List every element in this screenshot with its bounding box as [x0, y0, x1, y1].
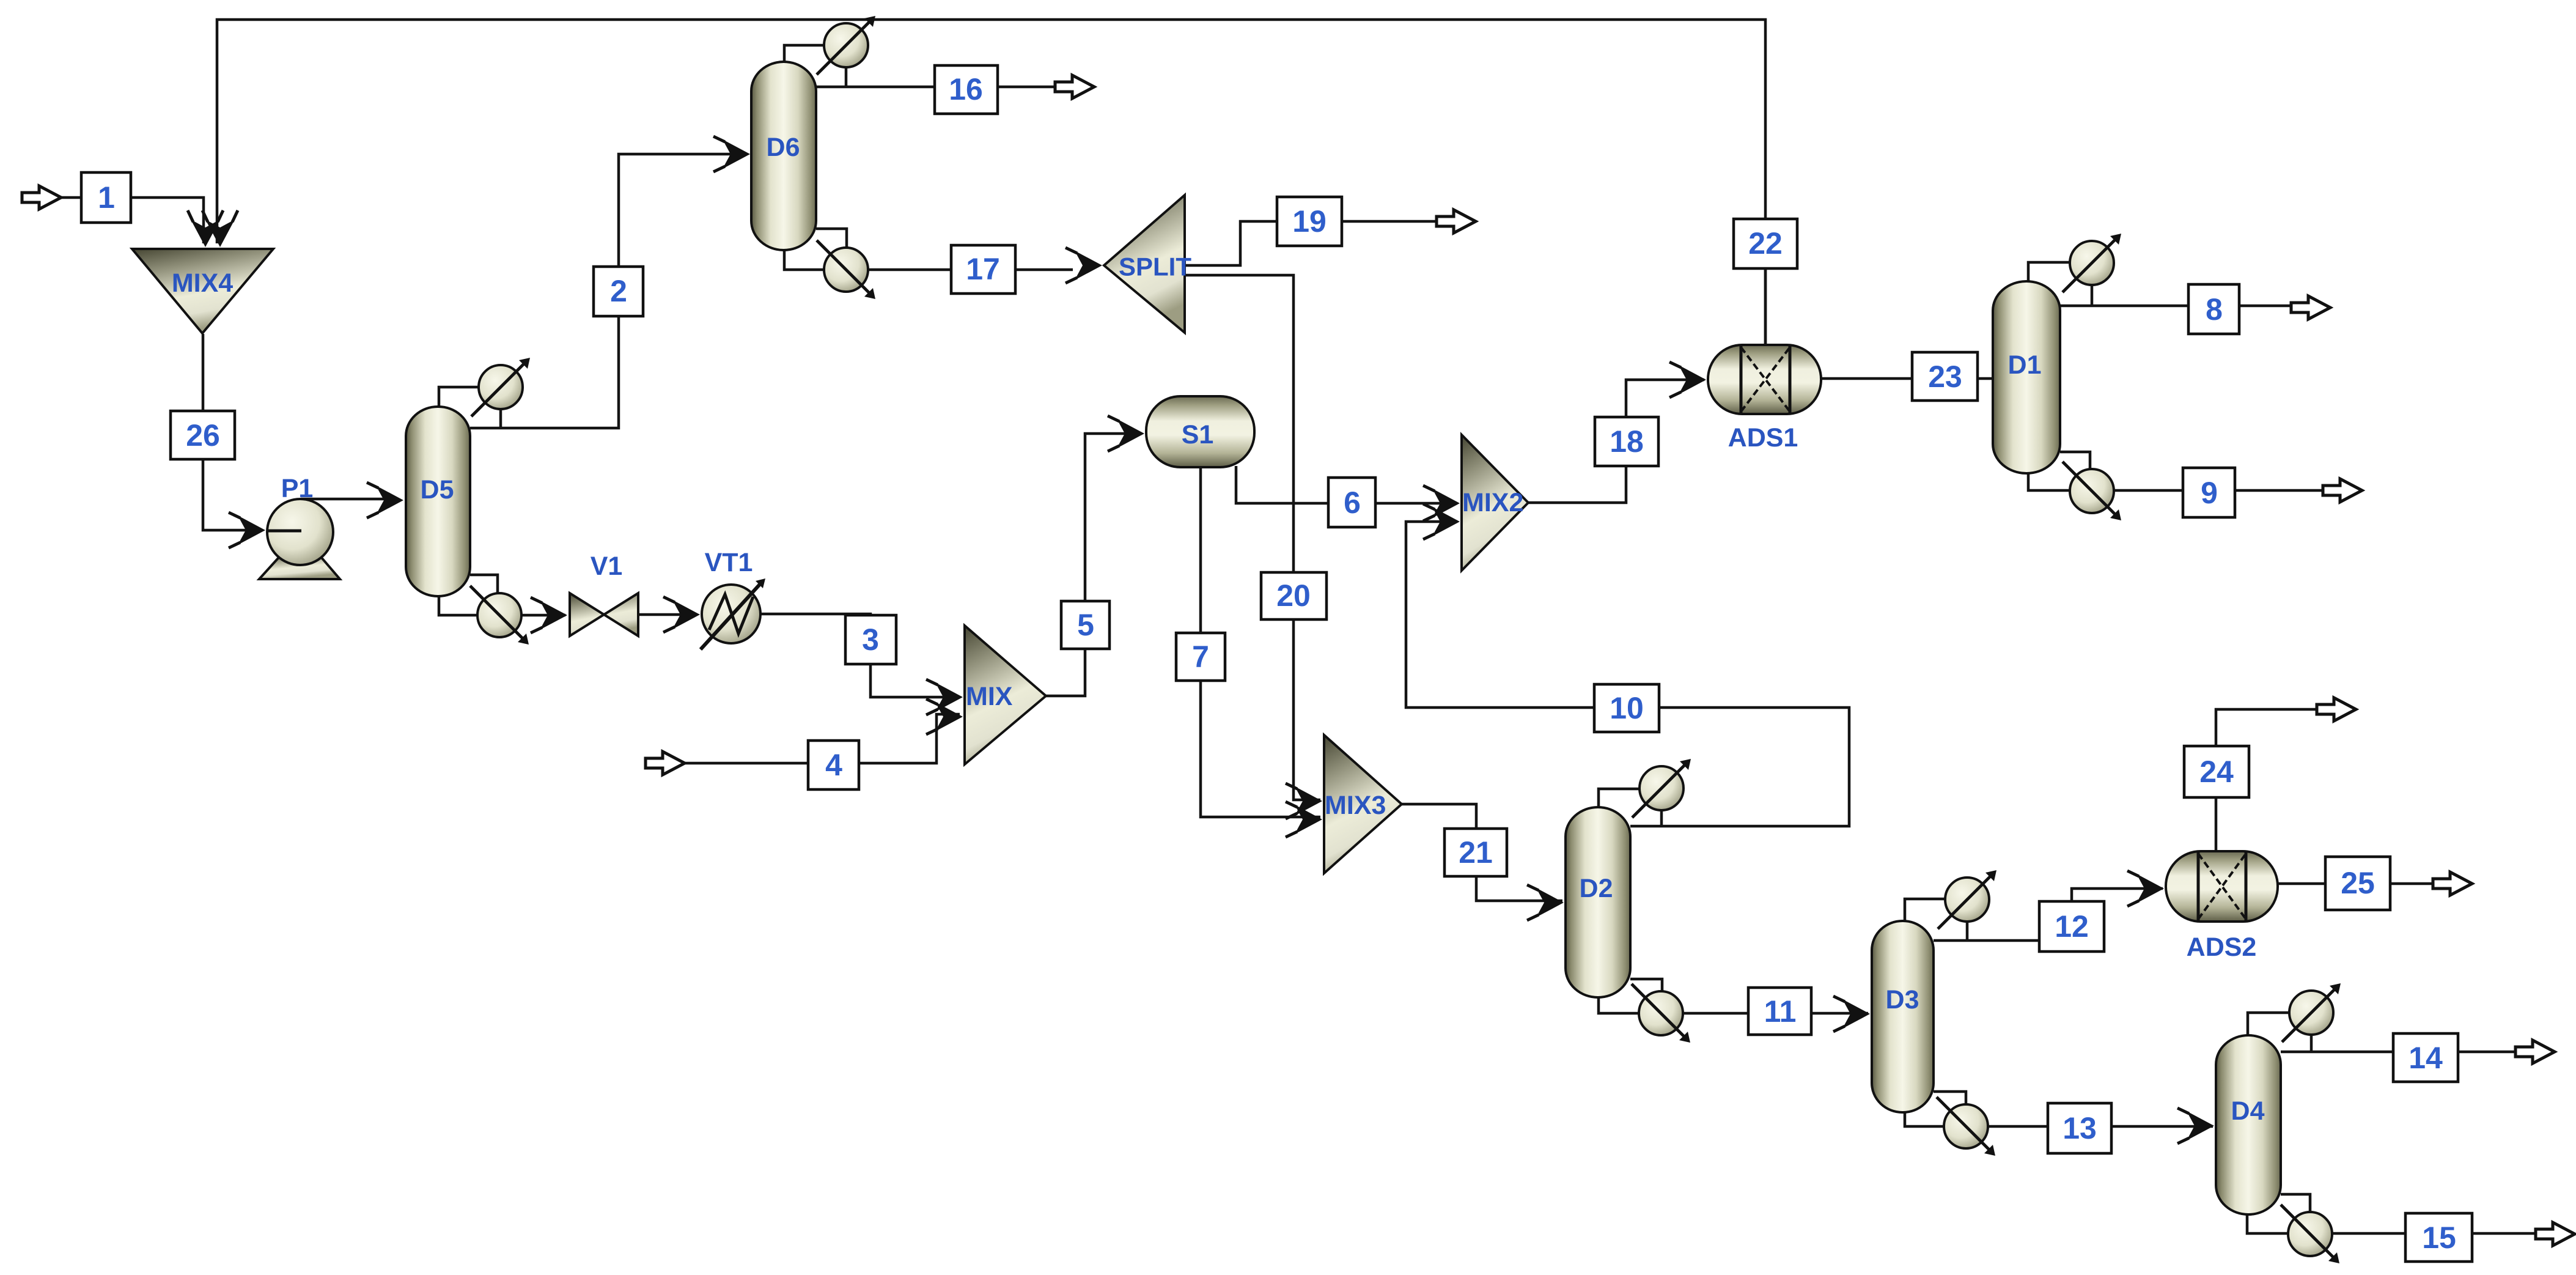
arrow into MIX4 from recycle 22: [202, 210, 238, 247]
stream 24: [2184, 746, 2249, 797]
svg-text:13: 13: [2063, 1111, 2097, 1145]
wire 10 D2 condenser to MIX2: [1406, 522, 1849, 826]
mixer MIX3: [1324, 735, 1402, 873]
stream 13: [2048, 1103, 2111, 1153]
svg-text:ADS1: ADS1: [1728, 423, 1798, 453]
svg-text:D1: D1: [2008, 350, 2042, 380]
svg-text:6: 6: [1344, 486, 1361, 520]
stream 17: [951, 245, 1015, 294]
svg-text:11: 11: [1764, 994, 1797, 1029]
exit arrow stream 8: [2291, 296, 2330, 319]
svg-text:7: 7: [1192, 640, 1209, 674]
stream 1: [81, 172, 131, 223]
wire 5 MIX to S1: [1046, 434, 1142, 696]
column D2: [1566, 807, 1630, 997]
exit arrow stream 25: [2433, 872, 2472, 895]
svg-text:12: 12: [2055, 909, 2089, 944]
wire D3 boilup return: [1934, 1092, 1966, 1104]
svg-text:18: 18: [1610, 424, 1644, 459]
wire 21 MIX3 to D2: [1402, 804, 1562, 901]
arrow into D5: [367, 482, 403, 518]
exit arrow stream 19: [1437, 210, 1476, 233]
wire D6 condenser outlet: [845, 66, 848, 87]
reboiler of D1: [2063, 462, 2121, 520]
stream 18: [1595, 417, 1658, 466]
wire 16 D6 to exit: [816, 86, 1069, 89]
svg-text:P1: P1: [281, 474, 314, 503]
adsorber ADS1: [1708, 345, 1821, 453]
svg-text:17: 17: [966, 252, 1000, 286]
reboiler of D2: [1632, 984, 1690, 1043]
arrow into MIX2 from 6: [1423, 486, 1460, 521]
wire D6 boilup return: [816, 229, 847, 249]
wire 18 MIX2 to ADS1: [1527, 380, 1704, 503]
arrow into MIX3 from 20: [1286, 783, 1322, 819]
svg-text:8: 8: [2206, 292, 2223, 327]
wire 22 drop to ADS1: [1764, 270, 1767, 346]
wire 6 S1 to MIX2: [1236, 466, 1457, 503]
stream 7: [1176, 633, 1225, 681]
svg-text:VT1: VT1: [705, 548, 753, 577]
svg-text:25: 25: [2341, 866, 2375, 900]
reboiler of D5: [470, 586, 529, 645]
exit arrow stream 24: [2317, 698, 2356, 721]
stream 25: [2325, 857, 2390, 910]
exit arrow stream 9: [2323, 479, 2362, 502]
wire 9 D1 bottoms to exit: [2028, 471, 2336, 490]
wire 7 S1 to MIX3: [1201, 466, 1320, 817]
arrow into VT1: [663, 597, 700, 632]
exit arrow stream 14: [2515, 1040, 2555, 1063]
wire D5 condenser outlet: [499, 407, 502, 428]
wire V1 to VT1: [639, 613, 697, 616]
wire D6 condenser inlet: [784, 45, 825, 64]
wire 17 D6 bottoms to SPLIT: [784, 248, 1073, 270]
arrow into V1: [531, 597, 567, 633]
stream 26: [171, 411, 235, 459]
wire 3 VT1 to MIX: [760, 614, 960, 697]
svg-text:26: 26: [186, 418, 220, 453]
wire D3 condenser inlet: [1905, 899, 1945, 923]
wire D4 condenser inlet: [2248, 1013, 2291, 1037]
wire feed 4 to MIX: [685, 714, 960, 763]
wire D4 condenser outlet: [2310, 1035, 2313, 1052]
column D6: [751, 62, 816, 250]
stream 20: [1261, 572, 1327, 619]
stream 6: [1328, 478, 1375, 527]
stream 16: [935, 65, 998, 114]
stream 2: [594, 267, 643, 316]
exit arrow stream 15: [2536, 1222, 2575, 1246]
svg-text:D6: D6: [767, 133, 800, 162]
wire P1 to D5: [301, 498, 397, 501]
svg-text:MIX2: MIX2: [1462, 488, 1523, 517]
svg-text:MIX4: MIX4: [172, 268, 233, 298]
stream 15: [2405, 1213, 2472, 1262]
arrow into SPLIT: [1065, 248, 1102, 283]
wire D2 condenser inlet: [1599, 789, 1639, 809]
wire 20 SPLIT to MIX3: [1183, 275, 1320, 800]
condenser of D1: [2063, 234, 2121, 292]
column D1: [1993, 281, 2060, 473]
svg-text:15: 15: [2422, 1221, 2456, 1255]
arrow into S1: [1108, 416, 1144, 451]
svg-text:SPLIT: SPLIT: [1119, 253, 1191, 281]
arrow into ADS1: [1669, 362, 1706, 397]
flash drum S1: [1146, 396, 1254, 467]
column D4: [2216, 1035, 2281, 1214]
wire 26 MIX4 to P1: [203, 334, 262, 530]
reboiler of D6: [817, 240, 875, 299]
arrow into ADS2: [2127, 871, 2164, 906]
wire 24 ADS2 to exit: [2216, 709, 2330, 852]
wire D1 condenser inlet: [2028, 262, 2071, 283]
exit arrow stream 16: [1055, 75, 1094, 98]
wire 15 D4 bottoms to exit: [2247, 1213, 2549, 1233]
mixer MIX: [965, 626, 1046, 764]
stream 8: [2188, 284, 2239, 334]
stream 11: [1748, 988, 1811, 1035]
splitter SPLIT: [1104, 195, 1191, 333]
svg-text:MIX3: MIX3: [1325, 791, 1386, 820]
stream 12: [2039, 901, 2104, 952]
arrow into MIX4 from stream 1: [188, 210, 223, 247]
column D3: [1872, 921, 1934, 1112]
stream 22: [1734, 219, 1797, 268]
mixer MIX2: [1462, 435, 1528, 571]
svg-text:D2: D2: [1580, 874, 1613, 903]
svg-text:S1: S1: [1182, 420, 1214, 449]
svg-text:21: 21: [1459, 835, 1493, 870]
stream 23: [1912, 352, 1978, 401]
svg-text:D3: D3: [1886, 985, 1919, 1014]
wire D5 boilup return: [470, 575, 498, 596]
svg-text:D4: D4: [2231, 1096, 2265, 1126]
svg-text:16: 16: [949, 72, 983, 106]
svg-text:ADS2: ADS2: [2187, 933, 2257, 962]
wire 14 D4 to exit: [2281, 1051, 2528, 1054]
mixer MIX4: [132, 249, 273, 333]
svg-text:MIX: MIX: [966, 682, 1013, 711]
reboiler of D4: [2281, 1205, 2339, 1263]
condenser of D2: [1632, 759, 1691, 818]
arrow into D2: [1527, 885, 1564, 920]
feed arrow stream 4: [646, 752, 685, 775]
svg-text:20: 20: [1276, 578, 1311, 613]
feed arrow stream 1: [22, 186, 61, 209]
stream 19: [1277, 197, 1342, 246]
condenser of D3: [1938, 870, 1996, 929]
wire D2 boilup return: [1630, 979, 1662, 992]
pump P1: [259, 474, 340, 579]
valve V1: [570, 552, 638, 636]
svg-text:V1: V1: [591, 552, 623, 581]
wire D3 condenser outlet: [1966, 922, 1969, 941]
heater VT1: [701, 548, 765, 649]
stream 21: [1444, 829, 1507, 876]
svg-text:23: 23: [1928, 360, 1962, 394]
svg-text:5: 5: [1077, 608, 1094, 642]
svg-text:3: 3: [862, 623, 879, 657]
wire 25 ADS2 to exit: [2278, 882, 2445, 885]
arrow into MIX from 4: [926, 699, 963, 734]
arrow into MIX from 3: [926, 679, 963, 715]
stream 4: [808, 741, 859, 789]
condenser of D6: [817, 16, 875, 75]
wire 11 D2 bottoms to D3: [1599, 996, 1868, 1013]
stream 14: [2393, 1033, 2458, 1082]
wire 12 D3 to ADS2: [1934, 889, 2163, 941]
svg-text:9: 9: [2201, 476, 2218, 510]
condenser of D5: [471, 358, 530, 416]
svg-text:1: 1: [98, 180, 115, 215]
condenser of D4: [2282, 983, 2341, 1042]
svg-text:4: 4: [825, 748, 842, 782]
wire feed 1 to MIX4: [61, 198, 204, 243]
wire 13 D3 bottoms to D4: [1905, 1111, 2213, 1126]
stream 3: [845, 615, 896, 664]
svg-text:22: 22: [1748, 226, 1783, 261]
wire D5 condenser inlet: [439, 387, 480, 408]
wire D4 boilup return: [2281, 1194, 2310, 1214]
reboiler of D3: [1937, 1097, 1995, 1156]
wire 23 ADS1 to D1: [1821, 377, 1993, 380]
wire 8 D1 to exit: [2060, 305, 2305, 308]
svg-text:D5: D5: [421, 475, 454, 504]
wire D5 bottoms to V1: [439, 594, 565, 615]
stream 5: [1061, 601, 1110, 649]
wire 2 D5 to D6: [470, 154, 747, 428]
svg-text:10: 10: [1610, 691, 1644, 725]
arrow into MIX3 from 7: [1286, 802, 1322, 837]
svg-text:24: 24: [2199, 755, 2234, 789]
adsorber ADS2: [2166, 851, 2278, 962]
svg-text:2: 2: [610, 274, 627, 308]
arrow into D4: [2177, 1108, 2214, 1144]
arrow into D6: [713, 136, 750, 172]
arrow into D3: [1833, 996, 1870, 1032]
svg-text:14: 14: [2409, 1041, 2443, 1075]
svg-text:19: 19: [1292, 204, 1327, 238]
arrow into P1: [229, 512, 265, 548]
column D5: [406, 407, 470, 596]
wire recycle 22 top run: [217, 20, 1765, 346]
wire D1 boilup return: [2060, 452, 2090, 470]
wire 19 SPLIT to exit: [1183, 221, 1450, 265]
wire D1 condenser outlet: [2091, 283, 2094, 306]
stream 10: [1594, 684, 1659, 732]
stream 9: [2183, 468, 2235, 517]
arrow into MIX2 from 10: [1423, 504, 1460, 539]
